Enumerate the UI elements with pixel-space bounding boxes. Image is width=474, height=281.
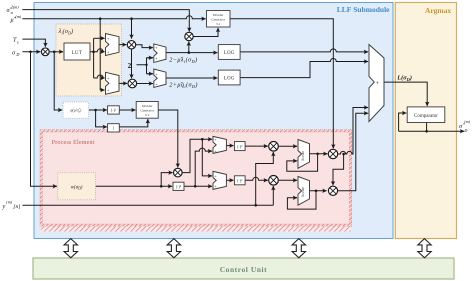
- svg-text:LUT: LUT: [72, 51, 83, 56]
- svg-text:+: +: [376, 80, 380, 87]
- svg-text:LOG: LOG: [224, 76, 235, 81]
- svg-text:(m): (m): [15, 14, 21, 19]
- svg-text:(·)²: (·)²: [237, 144, 243, 149]
- svg-text:Generator: Generator: [140, 108, 154, 112]
- svg-text:(m): (m): [6, 200, 12, 205]
- svg-text:Accum: Accum: [301, 187, 305, 198]
- svg-text:LLF Submodule: LLF Submodule: [337, 5, 390, 14]
- svg-text:D: D: [463, 128, 467, 133]
- svg-text:Process Element: Process Element: [52, 140, 95, 146]
- svg-text:(·)²: (·)²: [176, 184, 182, 189]
- svg-text:(m): (m): [464, 119, 470, 124]
- svg-text:Argmax: Argmax: [425, 6, 451, 15]
- svg-text:Control Unit: Control Unit: [220, 265, 268, 274]
- svg-text:y: y: [2, 203, 6, 210]
- svg-text:Comparator: Comparator: [414, 114, 438, 119]
- svg-text:u: u: [11, 10, 13, 15]
- svg-text:(·)²: (·)²: [111, 108, 117, 113]
- svg-text:5.1: 5.1: [216, 22, 221, 26]
- svg-text:Accum: Accum: [301, 151, 305, 162]
- svg-text:1: 1: [112, 126, 114, 131]
- svg-text:5.1: 5.1: [145, 113, 150, 117]
- svg-text:Generator: Generator: [211, 17, 225, 21]
- svg-text:D: D: [15, 52, 19, 57]
- svg-text:(·)²: (·)²: [237, 178, 243, 183]
- svg-text:2: 2: [128, 62, 132, 70]
- svg-text:L(σD): L(σD): [396, 75, 412, 82]
- svg-text:[n]: [n]: [13, 204, 20, 210]
- svg-text:w(σD): w(σD): [71, 185, 83, 190]
- svg-text:2(m): 2(m): [11, 5, 20, 10]
- svg-text:λi(σD): λi(σD): [58, 28, 74, 35]
- svg-text:LOG: LOG: [224, 51, 235, 56]
